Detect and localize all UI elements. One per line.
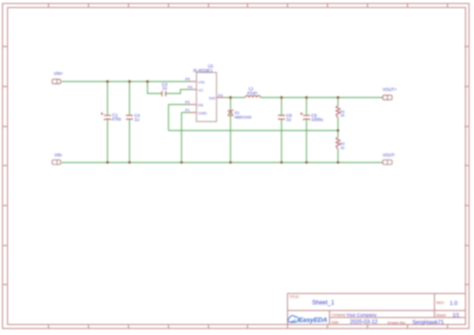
svg-text:VOUT+: VOUT+ (383, 87, 398, 92)
junction C4/VIN+ rail (128, 80, 130, 82)
svg-text:47uH: 47uH (247, 90, 257, 95)
junction VC branch/VIN+ rail (146, 80, 148, 82)
svg-text:P5: P5 (185, 78, 189, 82)
svg-text:1u: 1u (162, 86, 167, 91)
pin 5 VIN (189, 81, 197, 83)
svg-text:SergHawk71: SergHawk71 (413, 320, 445, 326)
wire GND drop (182, 113, 189, 163)
svg-text:1000u: 1000u (311, 117, 323, 122)
port VIN- (52, 153, 63, 165)
junction C8/GND rail (280, 161, 282, 163)
svg-text:D1: D1 (235, 111, 240, 115)
inductor L1 (245, 86, 260, 97)
chip U1 XL4015E1 (185, 64, 225, 122)
port VOUT- (383, 153, 396, 165)
svg-text:Sheet:: Sheet: (436, 314, 446, 318)
svg-text:Date:: Date: (332, 320, 340, 324)
pin 4 VC (189, 89, 197, 91)
svg-text:Your Company: Your Company (346, 312, 377, 317)
wire SW rail (225, 97, 383, 99)
svg-text:1u: 1u (135, 117, 140, 122)
junction C1/VIN+ rail (106, 80, 108, 82)
junction C9/SW rail (305, 96, 307, 98)
wire C1 vertical (107, 82, 109, 163)
svg-text:Company:: Company: (332, 313, 347, 317)
svg-text:P1: P1 (185, 109, 189, 113)
diode D1 MBR1545 (228, 109, 251, 119)
resistor R1 (336, 106, 345, 118)
svg-text:470u: 470u (112, 117, 122, 122)
wire R2 vertical (337, 131, 339, 163)
junction C9/GND rail (305, 161, 307, 163)
svg-text:VIN-: VIN- (54, 153, 63, 158)
wire R1 vertical (337, 98, 339, 131)
wire VC branch (148, 82, 189, 94)
svg-text:FB: FB (198, 102, 203, 107)
wire VIN+ rail (62, 81, 189, 83)
capacitor C1 (101, 112, 122, 121)
resistor R2 (336, 137, 345, 150)
capacitor C3 (162, 82, 168, 97)
wire C9 vertical (306, 98, 308, 163)
junction U1 GND/GND rail (180, 161, 182, 163)
wire D1 vertical (230, 98, 232, 163)
svg-text:SW: SW (209, 95, 216, 100)
svg-text:VC: VC (198, 87, 204, 92)
junction D1/SW rail (229, 96, 231, 98)
pin 3 SW (217, 97, 226, 99)
svg-text:P3: P3 (218, 94, 222, 98)
svg-text:XL4015E1: XL4015E1 (193, 68, 213, 73)
svg-text:1u: 1u (286, 117, 291, 122)
junction R1/SW rail (337, 96, 339, 98)
junction C1/GND rail (106, 161, 108, 163)
junction R2/GND rail (337, 161, 339, 163)
svg-text:2020-03-12: 2020-03-12 (350, 320, 378, 326)
capacitor C9 (300, 112, 323, 122)
wire C8 vertical (281, 98, 283, 163)
title block (288, 294, 466, 325)
svg-text:P2: P2 (185, 101, 189, 105)
svg-text:1k: 1k (340, 146, 344, 150)
svg-text:MBR1545: MBR1545 (235, 115, 252, 119)
capacitor C4 (126, 113, 141, 122)
svg-text:1.0: 1.0 (450, 301, 458, 307)
svg-text:TITLE:: TITLE: (290, 295, 300, 299)
pin 1 GND (189, 112, 197, 114)
svg-text:VOUT-: VOUT- (383, 153, 396, 158)
port VIN+ (52, 71, 63, 84)
pin 2 FB (189, 104, 197, 106)
port VOUT+ (383, 87, 398, 100)
svg-text:1/1: 1/1 (453, 313, 460, 319)
wire bottom rail (62, 162, 383, 164)
svg-text:GND: GND (198, 110, 207, 115)
junction C4/GND rail (128, 161, 130, 163)
EasyEDA logo (288, 316, 328, 324)
junction R1/R2 feedback node (337, 129, 339, 131)
svg-text:EasyEDA: EasyEDA (299, 317, 328, 324)
junction C8/SW rail (280, 96, 282, 98)
svg-text:VIN+: VIN+ (54, 71, 64, 76)
svg-text:Drawn By:: Drawn By: (388, 320, 406, 325)
svg-text:VIN: VIN (198, 79, 205, 84)
svg-text:Sheet_1: Sheet_1 (312, 300, 335, 306)
wire C4 vertical (129, 82, 131, 163)
wire FB rail (169, 105, 339, 131)
svg-text:REV:: REV: (437, 301, 445, 305)
svg-text:P4: P4 (188, 86, 192, 90)
junction D1/GND rail (229, 161, 231, 163)
svg-text:1k: 1k (340, 114, 344, 118)
capacitor C8 (278, 113, 292, 122)
